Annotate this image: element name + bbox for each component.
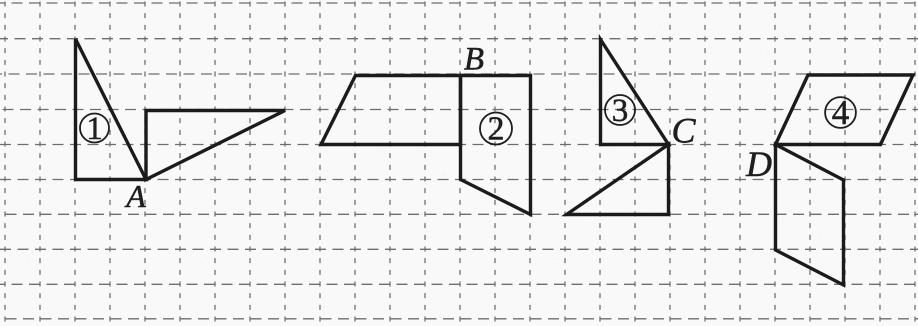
- svg-text:2: 2: [488, 111, 505, 148]
- circled label 3: [605, 93, 635, 129]
- figure 4 top parallelogram: [776, 75, 914, 145]
- figure 2 right quadrilateral: [461, 76, 531, 215]
- svg-text:D: D: [745, 144, 772, 184]
- figure 3 top triangle: [601, 40, 669, 145]
- circled label 1: [80, 111, 109, 147]
- svg-text:B: B: [464, 42, 484, 78]
- svg-text:C: C: [671, 111, 696, 151]
- svg-text:3: 3: [612, 93, 629, 129]
- figure 1 left triangle: [76, 39, 147, 180]
- figure 3 bottom triangle: [567, 145, 669, 215]
- figure 2 trapezoid: [321, 76, 461, 145]
- circled label 4: [825, 93, 856, 132]
- circled label 2: [480, 111, 512, 148]
- figure 4 bottom parallelogram: [776, 145, 844, 286]
- svg-text:A: A: [124, 178, 146, 214]
- svg-text:4: 4: [832, 93, 850, 132]
- figure 1 right triangle: [146, 111, 285, 180]
- svg-text:1: 1: [86, 111, 103, 147]
- scan noise overlay filter: [0, 0, 1, 1]
